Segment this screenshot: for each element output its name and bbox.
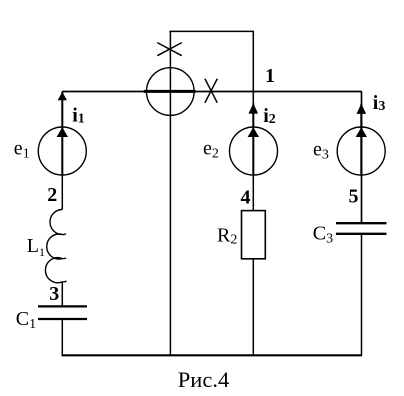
switch cross X2 on main wire right of generator (205, 79, 217, 103)
arrowhead inside e2 (248, 127, 259, 137)
wire right branch vertical below C3 (361, 234, 363, 356)
arrowhead i2 (249, 103, 259, 113)
svg-text:5: 5 (349, 186, 359, 208)
wire generator vertical (169, 31, 171, 355)
capacitor C3 plates (336, 222, 387, 224)
switch cross X1 on vertical wire above generator (157, 43, 182, 56)
arrowhead inside e1 (57, 127, 68, 137)
wire middle branch vertical upper (252, 91, 254, 210)
generator bold bar (144, 90, 196, 93)
svg-text:Рис.4: Рис.4 (178, 367, 229, 392)
generator circle (synchronous machine) (147, 68, 195, 116)
wire loop right vertical (to node 1) (252, 31, 254, 91)
wire left branch vertical between L1 and C1 (61, 282, 63, 307)
wire bottom horizontal (62, 354, 362, 356)
capacitor C1 plates (38, 305, 87, 307)
arrowhead inside e3 (356, 127, 367, 137)
resistor R2 (242, 211, 266, 259)
wire left branch vertical below C1 (61, 319, 63, 355)
svg-text:4: 4 (241, 187, 251, 209)
wire middle branch vertical below R2 (252, 259, 254, 355)
arrow shaft branch 3 (360, 104, 362, 175)
source e1 circle (38, 127, 86, 175)
arrow shaft branch 2 (252, 104, 254, 176)
arrow shaft branch 1 (61, 92, 63, 175)
inductor L1 (45, 210, 62, 283)
wire top loop horizontal (169, 30, 254, 32)
wire top main horizontal (62, 91, 362, 93)
svg-text:2: 2 (47, 184, 57, 206)
inductor junction hooks (62, 234, 66, 282)
arrowhead i1 (58, 92, 67, 100)
svg-text:3: 3 (49, 283, 59, 305)
source e3 circle (337, 127, 385, 175)
arrowhead i3 (357, 104, 367, 114)
source e2 circle (230, 127, 278, 175)
wire right branch vertical upper (361, 92, 363, 224)
wire left branch vertical upper (61, 91, 63, 209)
svg-text:1: 1 (265, 65, 275, 87)
